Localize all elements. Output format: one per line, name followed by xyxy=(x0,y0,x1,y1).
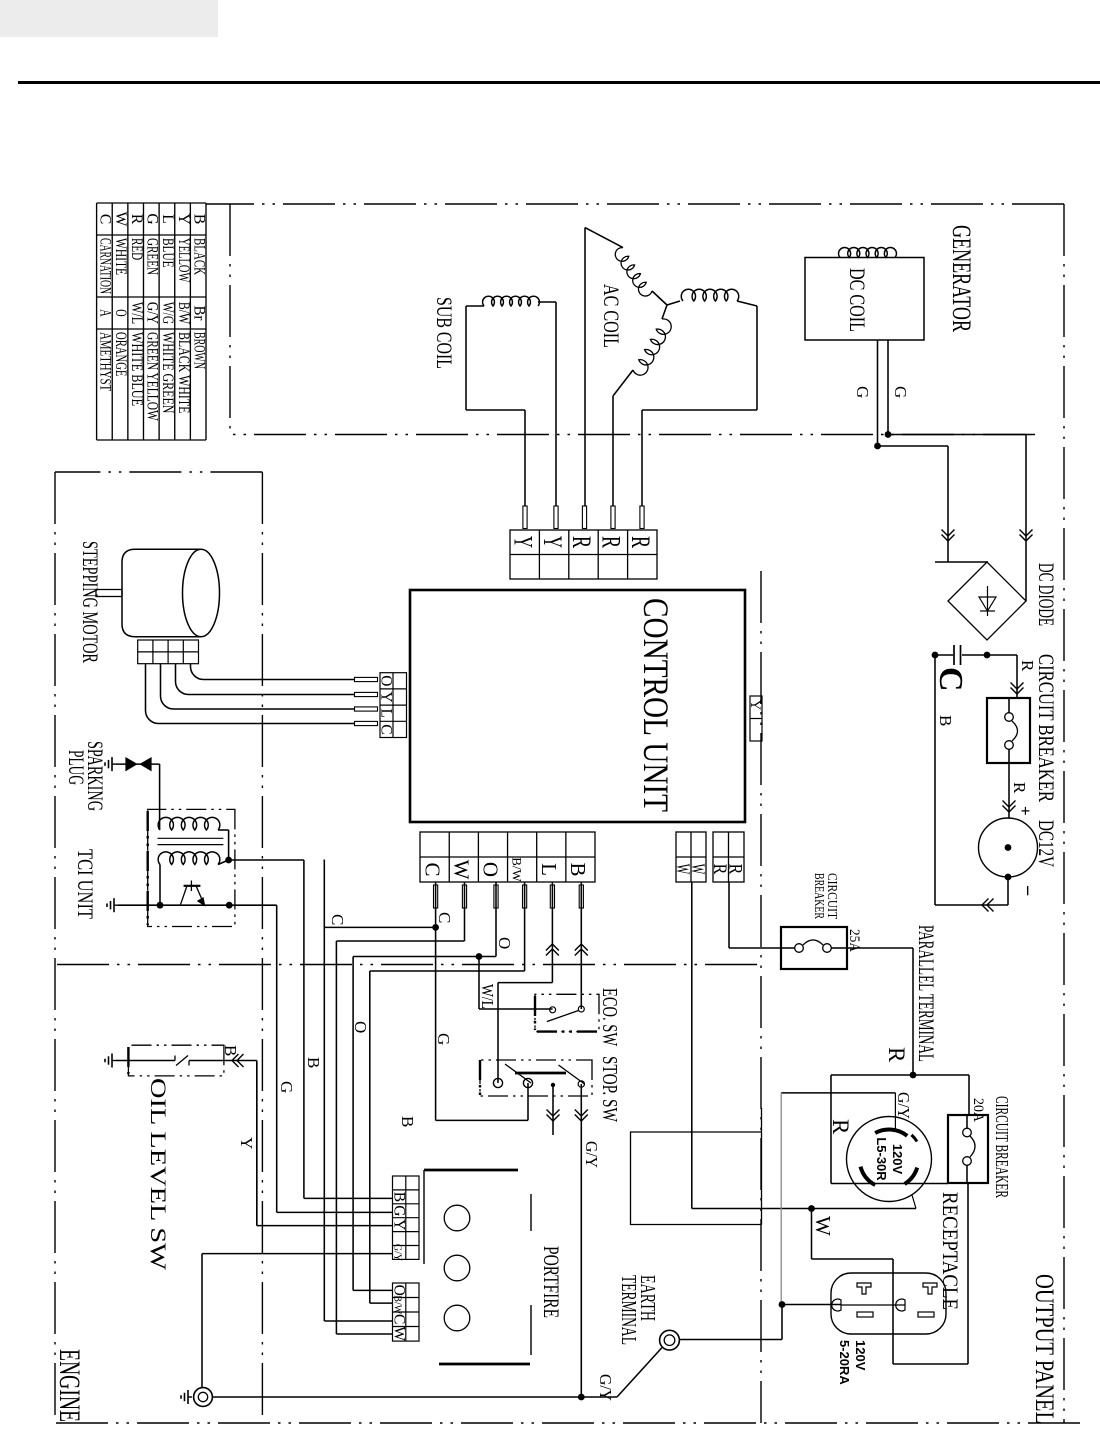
svg-text:B: B xyxy=(391,1192,408,1202)
svg-text:RECEPTACLE: RECEPTACLE xyxy=(938,1192,963,1310)
svg-text:G: G xyxy=(277,1081,296,1093)
svg-text:B/W: B/W xyxy=(510,857,525,882)
svg-text:O: O xyxy=(378,675,395,686)
svg-text:R: R xyxy=(1010,782,1029,794)
svg-text:Y: Y xyxy=(538,536,567,548)
svg-text:G: G xyxy=(853,386,872,398)
svg-text:CONTROL UNIT: CONTROL UNIT xyxy=(636,598,676,812)
svg-text:L: L xyxy=(159,214,176,223)
svg-text:G: G xyxy=(891,386,910,398)
svg-text:BROWN: BROWN xyxy=(190,332,207,369)
svg-text:BLACK: BLACK xyxy=(190,238,207,276)
svg-text:R: R xyxy=(597,536,626,548)
svg-text:OUTPUT PANEL: OUTPUT PANEL xyxy=(1030,1274,1059,1424)
svg-text:120V: 120V xyxy=(853,1340,868,1371)
svg-text:W: W xyxy=(391,1326,408,1341)
svg-text:CARNATION: CARNATION xyxy=(97,238,114,294)
svg-text:W: W xyxy=(112,212,129,227)
svg-text:WHITE BLUE: WHITE BLUE xyxy=(128,332,145,406)
svg-text:G/Y: G/Y xyxy=(143,302,160,324)
svg-text:C: C xyxy=(932,667,969,692)
svg-text:Y: Y xyxy=(747,700,763,711)
svg-text:20A: 20A xyxy=(970,1098,986,1122)
svg-text:+: + xyxy=(1016,806,1035,816)
svg-text:O: O xyxy=(391,1285,408,1296)
svg-text:A: A xyxy=(97,309,114,317)
svg-text:TCI UNIT: TCI UNIT xyxy=(73,849,98,919)
svg-text:B: B xyxy=(398,1116,417,1127)
svg-text:GREEN YELLOW: GREEN YELLOW xyxy=(143,332,160,421)
svg-text:PLUG: PLUG xyxy=(64,750,89,785)
svg-text:R: R xyxy=(626,536,655,548)
svg-text:W: W xyxy=(449,860,473,880)
svg-text:G/Y: G/Y xyxy=(392,1244,403,1261)
svg-text:B: B xyxy=(304,1057,323,1068)
svg-text:O: O xyxy=(479,862,503,877)
svg-text:AC COIL: AC COIL xyxy=(599,284,624,348)
svg-text:Y: Y xyxy=(175,213,192,224)
svg-text:G: G xyxy=(434,1033,453,1045)
svg-text:RED: RED xyxy=(128,238,145,260)
svg-text:W: W xyxy=(811,1216,835,1236)
svg-text:GENERATOR: GENERATOR xyxy=(947,225,976,332)
svg-text:PORTFIRE: PORTFIRE xyxy=(539,1246,564,1318)
svg-text:L: L xyxy=(378,708,395,717)
svg-text:SUB COIL: SUB COIL xyxy=(432,297,457,369)
svg-text:C: C xyxy=(328,914,347,925)
svg-text:O: O xyxy=(351,1021,370,1033)
svg-text:DC DIODE: DC DIODE xyxy=(1034,563,1059,626)
svg-text:BLUE: BLUE xyxy=(159,238,176,268)
svg-text:B: B xyxy=(936,715,955,726)
svg-text:CIRCUIT BREAKER: CIRCUIT BREAKER xyxy=(992,1096,1012,1198)
svg-text:O: O xyxy=(112,309,129,316)
svg-text:C: C xyxy=(420,862,444,876)
svg-text:L5-30R: L5-30R xyxy=(874,1137,889,1181)
svg-text:B: B xyxy=(566,862,590,876)
svg-text:L: L xyxy=(537,863,561,876)
svg-text:TERMINAL: TERMINAL xyxy=(617,1275,641,1345)
svg-text:OIL LEVEL SW: OIL LEVEL SW xyxy=(146,1078,171,1270)
svg-text:B/W: B/W xyxy=(175,302,192,324)
svg-text:R: R xyxy=(567,536,596,548)
svg-text:R: R xyxy=(884,1047,909,1063)
svg-text:YELLOW: YELLOW xyxy=(175,238,192,283)
svg-text:R: R xyxy=(1018,660,1037,672)
svg-text:5-20RA: 5-20RA xyxy=(837,1340,852,1385)
svg-text:STOP. SW: STOP. SW xyxy=(598,1056,622,1122)
svg-text:R: R xyxy=(828,1119,853,1135)
svg-text:G/Y: G/Y xyxy=(596,1374,615,1401)
svg-text:W/G: W/G xyxy=(159,302,176,324)
svg-text:Br: Br xyxy=(190,306,207,322)
svg-text:WHITE: WHITE xyxy=(112,238,129,275)
svg-text:ORANGE: ORANGE xyxy=(112,332,129,376)
svg-text:G/Y: G/Y xyxy=(582,1141,601,1168)
svg-text:Y: Y xyxy=(378,691,395,702)
svg-text:BREAKER: BREAKER xyxy=(811,873,826,919)
svg-text:R: R xyxy=(709,864,730,875)
svg-text:BLACK WHITE: BLACK WHITE xyxy=(175,332,192,413)
svg-text:120V: 120V xyxy=(890,1144,905,1175)
svg-text:B: B xyxy=(190,214,207,224)
svg-text:Y: Y xyxy=(508,536,537,548)
svg-text:WHITE GREEN: WHITE GREEN xyxy=(159,332,176,413)
svg-text:O: O xyxy=(495,937,514,949)
svg-text:Y: Y xyxy=(391,1219,408,1230)
svg-text:−: − xyxy=(1016,885,1038,896)
svg-text:W/L: W/L xyxy=(128,302,145,324)
svg-text:CIRCUIT: CIRCUIT xyxy=(824,873,839,919)
svg-text:Y: Y xyxy=(237,1137,256,1149)
svg-text:DC COIL: DC COIL xyxy=(845,268,870,332)
svg-text:CIRCUIT BREAKER: CIRCUIT BREAKER xyxy=(1034,654,1059,802)
svg-text:PARALLEL TERMINAL: PARALLEL TERMINAL xyxy=(914,925,939,1062)
svg-text:G: G xyxy=(391,1205,408,1216)
svg-text:C: C xyxy=(435,912,454,923)
svg-text:G: G xyxy=(143,213,160,224)
svg-text:G/Y: G/Y xyxy=(894,1092,913,1119)
svg-text:C: C xyxy=(391,1314,408,1324)
svg-text:ECO. SW: ECO. SW xyxy=(598,988,622,1046)
svg-text:DC12V: DC12V xyxy=(1034,820,1059,867)
svg-text:C: C xyxy=(378,724,395,734)
svg-text:ENGINE: ENGINE xyxy=(53,1349,86,1422)
svg-text:STEPPING MOTOR: STEPPING MOTOR xyxy=(78,541,103,663)
svg-text:GREEN: GREEN xyxy=(143,238,160,275)
svg-text:B: B xyxy=(221,1045,240,1056)
svg-text:AMETHYST: AMETHYST xyxy=(97,332,114,392)
svg-text:R: R xyxy=(128,214,145,225)
svg-text:W/L: W/L xyxy=(478,984,497,1009)
svg-text:W: W xyxy=(672,864,693,875)
svg-text:C: C xyxy=(97,214,114,224)
